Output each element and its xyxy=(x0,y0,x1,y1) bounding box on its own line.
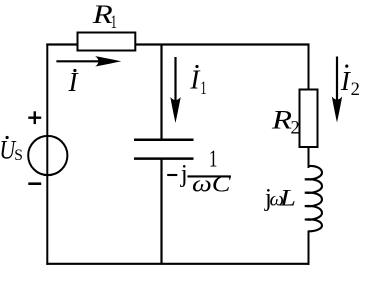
current arrow I (top branch) xyxy=(56,56,121,66)
source US (ac/ideal source circle) xyxy=(28,136,67,175)
current arrow I1 (middle branch) xyxy=(170,57,180,123)
label I1 xyxy=(189,65,206,99)
svg-text:2: 2 xyxy=(351,80,360,100)
capacitor C plates xyxy=(134,140,194,159)
svg-text:2: 2 xyxy=(291,119,300,139)
label US xyxy=(0,135,23,164)
value label -j 1/(omega C) of capacitor xyxy=(167,147,231,197)
label I (dot over I) xyxy=(68,67,80,97)
label R1 xyxy=(92,0,117,33)
svg-text:1: 1 xyxy=(111,13,117,33)
value label j(omega)L of inductor xyxy=(264,184,296,211)
svg-text:1: 1 xyxy=(200,79,206,99)
+ polarity mark of source xyxy=(28,111,41,124)
current arrow I2 (right branch) xyxy=(332,57,342,123)
wire: right vertical (top corner to R2, R2 to coil, coil to bottom corner) xyxy=(308,44,310,91)
resistor R2 (box in right branch) xyxy=(300,90,318,148)
wire: bottom horizontal xyxy=(46,263,309,265)
label R2 xyxy=(271,105,300,138)
svg-text:j: j xyxy=(180,161,188,188)
inductor L coil xyxy=(305,166,322,231)
svg-text:S: S xyxy=(14,147,23,164)
resistor R1 (box in top wire) xyxy=(78,33,136,51)
- polarity mark of source xyxy=(28,182,41,185)
svg-text:ωC: ωC xyxy=(192,171,231,196)
svg-text:L: L xyxy=(279,185,296,211)
wire: left vertical from top-left corner through source to bottom-left corner xyxy=(46,44,48,265)
svg-text:1: 1 xyxy=(209,147,218,173)
label I2 xyxy=(340,65,360,100)
wire: top horizontal from left corner to right corner xyxy=(46,43,309,45)
wire: middle branch vertical (top wire to capacitor, capacitor to bottom wire) xyxy=(160,45,162,141)
svg-text:R: R xyxy=(271,105,292,134)
